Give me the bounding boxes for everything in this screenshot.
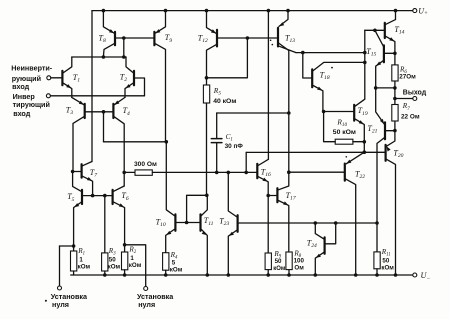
node R11 on V- bus [375,273,379,277]
wire to right null terminal [125,245,146,287]
transistor T23 [219,173,377,275]
transistor T24 [307,223,336,275]
wire T12-T13 base rail [217,37,278,39]
svg-text:Выход: Выход [403,89,427,96]
transistor T9 [154,11,172,142]
wire collectors T1-T2 [72,56,126,58]
transistor T3 [66,97,85,171]
wire V- bottom bus [71,274,413,276]
speck pair near T13 [270,40,273,46]
label inverting input [13,92,50,118]
wire T11 diode loop [187,195,207,222]
node T7 emitter on base rail [91,194,95,198]
label установка нуля left [51,292,88,309]
wire follower line to output stage [246,151,385,153]
node tie on collector wire [122,55,126,59]
resistor R2 [122,245,142,275]
node T12 collector / R5 [205,76,209,80]
resistor 300 Ом [124,161,157,175]
node T9 emitter on V+ bus [164,9,168,13]
node T13 emitter on V+ bus [286,9,290,13]
node T20 base / T22 emitter [363,150,367,154]
node R9 on V- bus [266,273,270,277]
node non-inverting input [47,76,62,80]
svg-text:300 Ом: 300 Ом [134,161,157,168]
node T7 base / T3-T5 collectors [71,170,75,174]
transistor T2 [120,57,134,97]
wire V+ top bus [92,10,413,12]
wire C1 top to T17 collector [217,112,289,114]
node T22 collector on V- bus [354,273,358,277]
wire to left null terminal [60,246,74,286]
node rail to T20-base link [244,171,248,175]
wire T5-T6 base rail [82,195,113,197]
node base rail tie [246,36,250,40]
wire T13 collector A to output bias [296,52,365,54]
node T14 collector on V+ bus [394,9,398,13]
node T6 emitter / R2 [123,243,127,247]
speck near T18 [331,67,333,69]
transistor T18 [303,53,365,112]
resistor R7 [392,102,420,121]
node T24 emitter on V- bus [314,273,318,277]
svg-text:кОм: кОм [78,264,91,271]
svg-text:нуля: нуля [52,300,69,309]
wire VBE multiplier to T20 base node [363,142,365,152]
node T9/T10 collector junction [165,140,169,144]
resistor R6 [392,53,416,130]
terminal U+ [413,7,428,18]
resistor R8 [286,249,305,275]
svg-text:Ом: Ом [294,264,304,271]
node T19 base / T18 emitter [322,110,326,114]
label non-inverting input [11,64,53,92]
svg-text:кОм: кОм [170,266,183,273]
node T24 base tap [334,221,338,225]
svg-text:Неинверти-: Неинверти- [11,64,53,73]
svg-text:50: 50 [275,258,282,265]
svg-text:40 кОм: 40 кОм [213,98,236,105]
node T5 emitter / R1 [72,244,76,248]
wire T3/T4 bases down to bias line [103,112,105,142]
transistor T5 [67,172,82,247]
node R7 bottom / T21 base / T20 emitter [393,129,397,133]
transistor T1 [62,57,80,97]
wire gain node rail [152,171,256,173]
svg-text:22 Ом: 22 Ом [401,113,420,120]
transistor T22 [289,152,365,275]
node R10 / T19 emitter [363,140,367,144]
node inverting input [46,94,144,98]
svg-text:кОм: кОм [129,262,142,269]
node C1 top on T17 collector line [287,111,291,115]
transistor T4 [113,97,130,186]
transistor T10 [156,142,176,253]
transistor T11 [201,195,214,275]
node bias column upper [363,51,367,55]
node T8 collector junction [102,55,106,59]
node output / R6 bottom [393,86,397,90]
wire link up to follower wire [245,152,247,172]
svg-text:нуля: нуля [138,300,155,309]
node T15 base / R6 top [393,52,397,56]
svg-text:кОм: кОм [381,265,394,272]
svg-text:50: 50 [109,257,116,264]
node T14 base [373,29,377,33]
transistor T16 [257,159,271,253]
node T12 emitter on V+ bus [205,9,209,13]
svg-text:27Ом: 27Ом [399,74,416,81]
transistor T6 [113,186,129,245]
wire T8-T9 base rail [115,37,154,39]
transistor T8 [99,11,116,57]
terminal null-set right [144,287,148,291]
node T15/T21 emitter junction [374,86,378,90]
node T3/T4 base junction [102,110,106,114]
node T23 base wire / T21 collector [375,221,379,225]
svg-text:30 пФ: 30 пФ [225,143,244,150]
wire T10-T11 base rail [175,222,200,224]
node R4 on V- bus [164,273,168,277]
transistor T12 [198,11,217,78]
svg-text:1: 1 [79,257,83,264]
node R3 on V- bus [103,273,107,277]
terminal output [413,97,417,101]
node T24 collector tap [314,221,318,225]
node T20 collector on V- bus [394,273,398,277]
wire T12 diode connection [207,38,248,78]
svg-text:50 кОм: 50 кОм [333,129,356,136]
terminal null-set left [58,286,62,290]
node T23 emitter on V- bus [227,273,231,277]
resistor R3 [102,196,121,275]
wire bias line to mirror [104,141,167,143]
node base rail to R3 [103,194,107,198]
wire T2 base to inverting input [134,78,145,96]
wire to output terminal [395,98,413,100]
resistor R11 [374,248,394,275]
transistor T7 [73,162,98,196]
label установка нуля right [137,292,174,309]
wire V+ to T16 collector [267,11,269,160]
node T8 emitter on V+ bus [102,9,106,13]
transistor T15 [366,30,395,87]
node T18 base tap [301,51,305,55]
resistor R9 [265,250,286,275]
node output tap [393,97,397,101]
resistor R5 [203,78,236,196]
terminal U- [413,271,431,282]
node T4/T6 collectors to 300Om [122,171,126,175]
node T18 collector tie [363,61,367,65]
node T10/T11 base tie [185,221,189,225]
node R2 on V- bus [123,273,127,277]
capacitor C1 [211,113,243,172]
node V+ drop [267,9,271,13]
wire T8 diode connection [123,38,125,57]
node T8 base tie [122,36,126,40]
transistor T17 [268,51,296,253]
node T23 collector on rail [227,171,231,175]
label Выход [403,89,427,96]
speck [45,300,47,302]
transistor T14 [365,11,405,54]
wire output to current limit [376,87,395,89]
wire base rail T3-T4 [85,111,114,113]
node R8 on V- bus [287,273,291,277]
svg-text:кОм: кОм [273,266,286,272]
svg-text:50: 50 [382,257,389,264]
resistor R4 [163,251,183,275]
svg-text:вход: вход [12,82,30,91]
transistor T19 [324,30,368,142]
node T22 base wire on T17 collector line [287,170,291,174]
node R5 / T11 collector [205,194,209,198]
svg-text:кОм: кОм [108,264,121,271]
svg-text:вход: вход [13,109,31,118]
svg-text:1: 1 [130,255,134,262]
transistor T20 [386,131,404,275]
transistor T21 [367,88,395,252]
node C1 bottom on rail [215,171,219,175]
wire V+ left drop to T7 collector [91,11,93,162]
node T11 emitter on V- bus [206,273,210,277]
resistor R10 [324,112,365,145]
resistor R1 [71,246,91,275]
transistor T13 [278,11,296,53]
node T17 base / T16 emitter [266,194,270,198]
svg-text:5: 5 [172,259,176,266]
